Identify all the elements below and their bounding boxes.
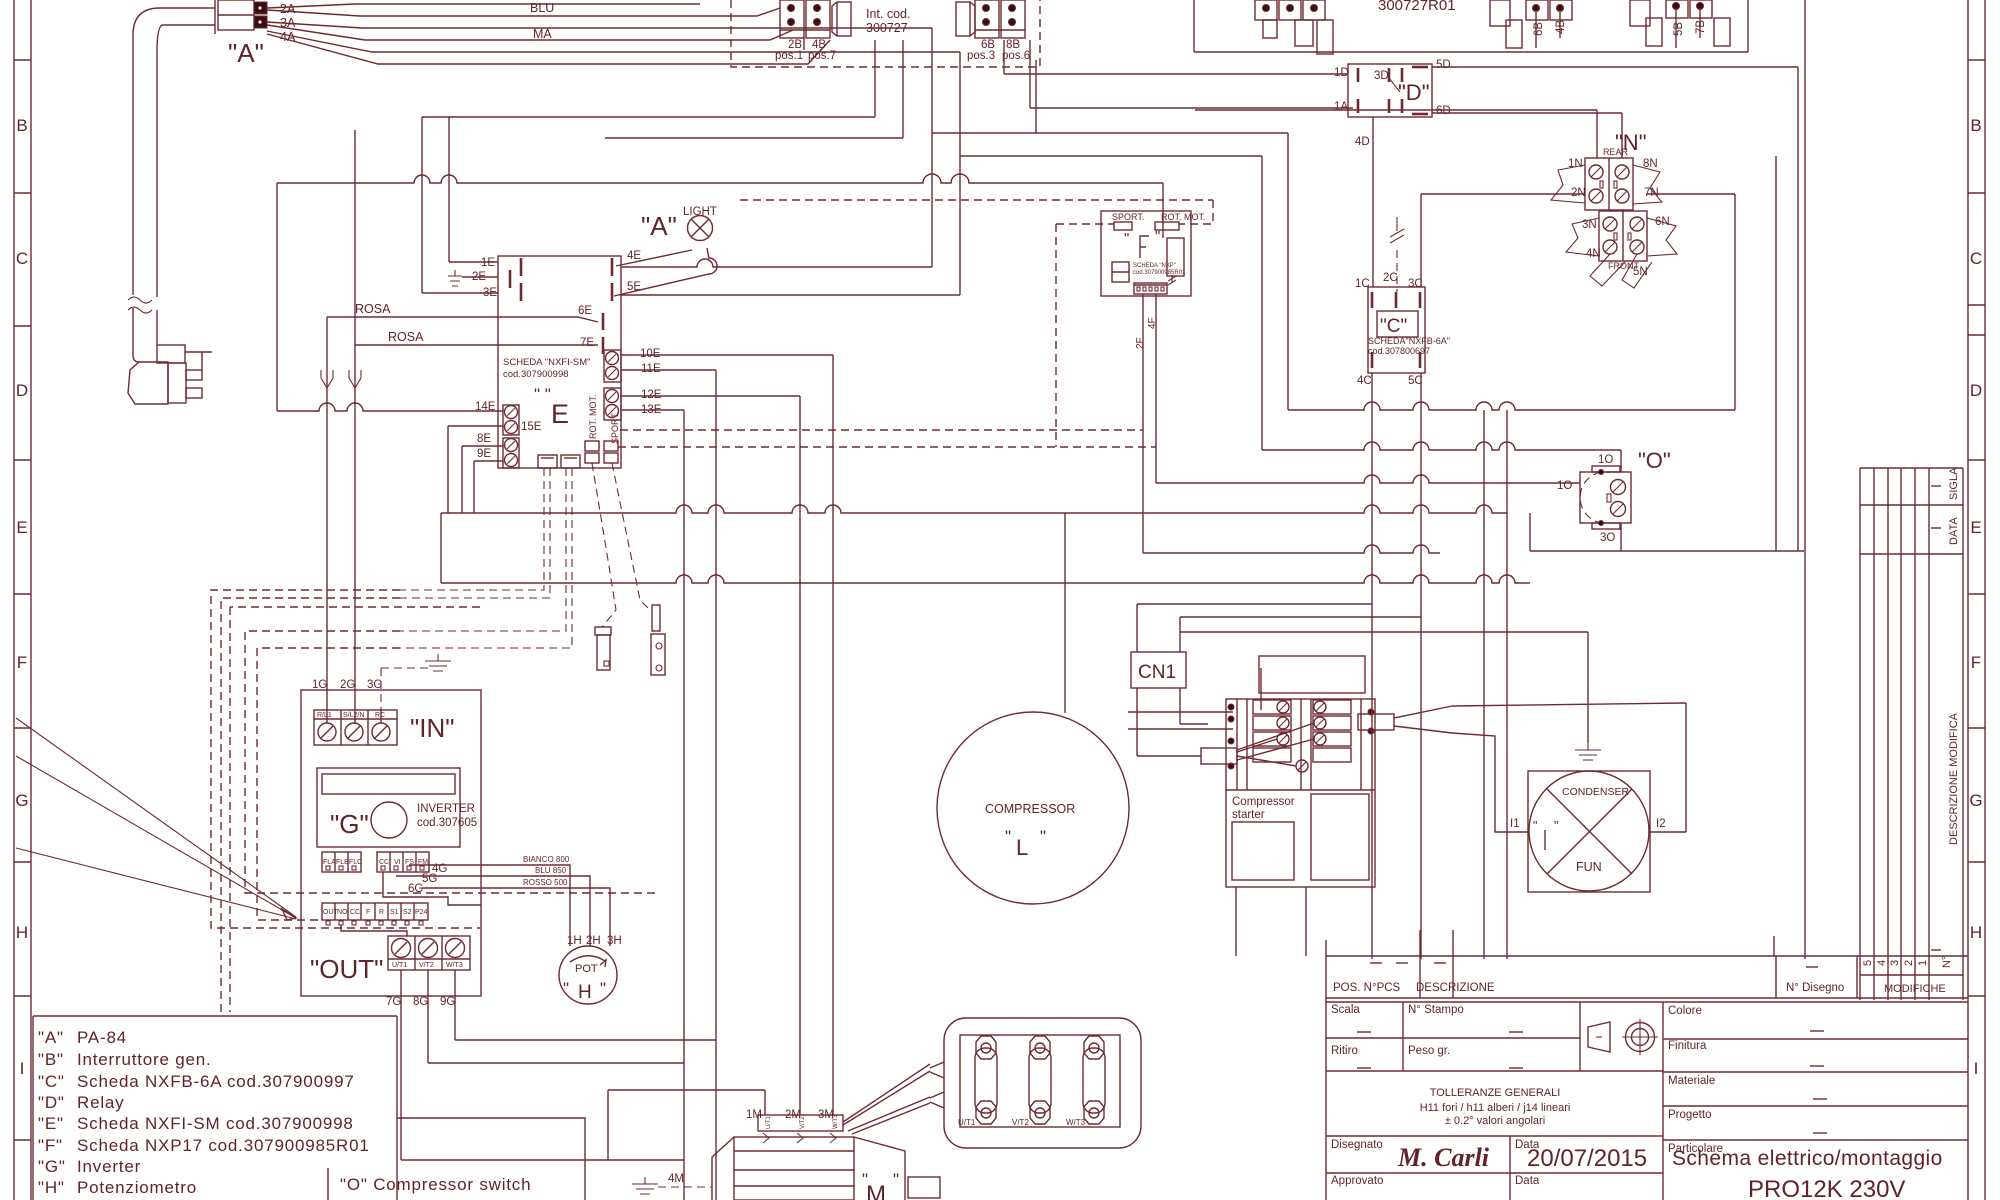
svg-text:ROSSO 500: ROSSO 500 (523, 878, 568, 887)
svg-text:W/T3: W/T3 (446, 962, 463, 969)
svg-text:ROT. MOT.: ROT. MOT. (588, 395, 598, 440)
svg-text:SPORT.: SPORT. (610, 412, 620, 444)
svg-text:CC: CC (350, 909, 360, 916)
svg-text:10E: 10E (640, 348, 661, 360)
svg-text:COMPRESSOR: COMPRESSOR (985, 802, 1075, 816)
svg-text:"C": "C" (1380, 316, 1407, 337)
svg-text:SIGLA: SIGLA (1948, 467, 1960, 500)
svg-text:": " (893, 1170, 899, 1189)
svg-text:Potenziometro: Potenziometro (77, 1178, 197, 1197)
svg-text:4B: 4B (1555, 20, 1567, 34)
svg-text:M: M (866, 1181, 886, 1200)
svg-text:E: E (1970, 518, 1981, 537)
svg-text:7B: 7B (1695, 20, 1707, 34)
svg-text:W/T3: W/T3 (1066, 1118, 1086, 1127)
svg-text:± 0.2° valori angolari: ± 0.2° valori angolari (1445, 1115, 1545, 1127)
svg-text:U/T1: U/T1 (766, 1115, 772, 1129)
svg-text:2C: 2C (1383, 272, 1398, 284)
svg-text:1O: 1O (1557, 480, 1572, 492)
svg-text:" ": " " (534, 385, 551, 404)
svg-text:V/T2: V/T2 (1012, 1118, 1029, 1127)
svg-text:3: 3 (1889, 960, 1901, 966)
svg-text:H: H (1970, 923, 1982, 942)
svg-text:": " (1533, 819, 1537, 833)
svg-text:1E: 1E (481, 257, 495, 269)
svg-text:Inverter: Inverter (77, 1157, 141, 1176)
svg-text:NO: NO (337, 909, 348, 916)
svg-text:N° Disegno: N° Disegno (1786, 982, 1844, 994)
svg-text:B: B (16, 116, 27, 135)
svg-text:Int. cod.: Int. cod. (866, 7, 910, 21)
svg-text:20/07/2015: 20/07/2015 (1527, 1145, 1647, 1172)
svg-text:4M: 4M (668, 1173, 684, 1185)
svg-text:Scheda NXFI-SM cod.307900998: Scheda NXFI-SM cod.307900998 (77, 1114, 354, 1133)
svg-text:M. Carli: M. Carli (1397, 1143, 1490, 1172)
svg-text:REAR: REAR (1603, 147, 1629, 157)
svg-text:pos.6: pos.6 (1002, 50, 1030, 62)
svg-text:SPORT.: SPORT. (1112, 212, 1144, 222)
svg-text:G: G (1969, 791, 1982, 810)
svg-text:3G: 3G (367, 679, 382, 691)
svg-text:3D: 3D (1374, 70, 1389, 82)
svg-text:pos.3: pos.3 (967, 50, 995, 62)
svg-text:Data: Data (1515, 1175, 1540, 1187)
svg-text:I: I (1974, 1059, 1979, 1078)
svg-text:1H: 1H (567, 935, 582, 947)
svg-text:pos.7: pos.7 (808, 50, 836, 62)
svg-text:"G": "G" (330, 809, 369, 839)
svg-text:300727: 300727 (866, 21, 908, 35)
svg-text:300727R01: 300727R01 (1378, 0, 1456, 14)
svg-text:Materiale: Materiale (1668, 1075, 1715, 1087)
svg-text:FLC: FLC (349, 859, 362, 866)
svg-text:5B: 5B (1673, 22, 1685, 36)
svg-text:5G: 5G (422, 873, 437, 885)
svg-text:N°: N° (1941, 956, 1953, 968)
svg-text:PRO12K 230V: PRO12K 230V (1748, 1176, 1905, 1200)
svg-text:BIANCO 800: BIANCO 800 (523, 855, 570, 864)
svg-text:1A: 1A (1334, 101, 1348, 113)
svg-text:P24: P24 (415, 909, 428, 916)
svg-text:Interruttore gen.: Interruttore gen. (77, 1050, 212, 1069)
svg-text:"O": "O" (1638, 448, 1671, 473)
svg-text:4C: 4C (1357, 375, 1372, 387)
svg-text:2A: 2A (280, 2, 296, 16)
svg-text:H11 fori / h11 alberi /: H11 fori / h11 alberi / j14 lineari (1420, 1102, 1571, 1114)
svg-text:pos.1: pos.1 (775, 50, 803, 62)
svg-text:4E: 4E (627, 250, 641, 262)
svg-text:L: L (1016, 835, 1028, 860)
svg-text:2N: 2N (1571, 187, 1586, 199)
svg-text:"D": "D" (38, 1093, 65, 1112)
svg-text:5: 5 (1862, 960, 1874, 966)
svg-text:ROT. MOT.: ROT. MOT. (1161, 212, 1206, 222)
svg-text:POS. N°PCS: POS. N°PCS (1333, 982, 1401, 994)
svg-text:9E: 9E (477, 448, 491, 460)
svg-text:RC: RC (375, 712, 385, 719)
svg-text:Scheda NXFB-6A cod.307900997: Scheda NXFB-6A cod.307900997 (77, 1072, 355, 1091)
svg-text:"F": "F" (38, 1136, 63, 1155)
svg-text:G: G (15, 791, 28, 810)
svg-text:"A": "A" (228, 38, 264, 68)
svg-text:CC: CC (379, 859, 389, 866)
svg-text:H: H (578, 982, 592, 1003)
svg-text:I1: I1 (1510, 818, 1520, 830)
svg-text:VI: VI (394, 859, 401, 866)
svg-text:FRONT: FRONT (1608, 261, 1639, 271)
svg-text:7G: 7G (386, 996, 401, 1008)
svg-text:S/L2/N: S/L2/N (343, 712, 364, 719)
svg-text:1C: 1C (1355, 278, 1370, 290)
svg-text:PA-84: PA-84 (77, 1028, 127, 1047)
svg-text:R: R (379, 909, 384, 916)
svg-text:12E: 12E (641, 389, 662, 401)
svg-text:"B": "B" (38, 1050, 64, 1069)
svg-text:2F: 2F (1135, 337, 1146, 349)
svg-text:1M: 1M (746, 1109, 762, 1121)
svg-text:8E: 8E (477, 433, 491, 445)
svg-text:Finitura: Finitura (1668, 1040, 1707, 1052)
svg-text:BLU: BLU (530, 1, 554, 15)
svg-text:": " (1554, 819, 1558, 833)
svg-text:": " (1005, 827, 1011, 846)
svg-text:H: H (16, 923, 28, 942)
svg-text:Approvato: Approvato (1331, 1175, 1383, 1187)
svg-text:W/T3: W/T3 (833, 1114, 839, 1129)
svg-text:F: F (1971, 653, 1981, 672)
svg-text:Colore: Colore (1668, 1005, 1702, 1017)
svg-text:FLA: FLA (323, 859, 336, 866)
svg-text:MODIFICHE: MODIFICHE (1884, 983, 1946, 995)
svg-text:V/T2: V/T2 (419, 962, 434, 969)
svg-text:3H: 3H (607, 935, 622, 947)
svg-text:2G: 2G (340, 679, 355, 691)
svg-text:2M: 2M (785, 1109, 801, 1121)
svg-text:SCHEDA "NXP": SCHEDA "NXP" (1133, 263, 1176, 269)
svg-text:": " (1040, 827, 1046, 846)
svg-text:ROSA: ROSA (355, 302, 391, 316)
svg-text:": " (1124, 230, 1129, 247)
svg-text:C: C (1970, 249, 1982, 268)
svg-text:F: F (17, 653, 27, 672)
svg-text:3O: 3O (1600, 532, 1615, 544)
svg-text:E: E (551, 399, 569, 429)
svg-text:"D": "D" (1398, 80, 1430, 105)
svg-text:7E: 7E (580, 337, 594, 349)
svg-text:DESCRIZIONE: DESCRIZIONE (1416, 982, 1495, 994)
svg-text:"E": "E" (38, 1114, 64, 1133)
svg-text:cod.307800697: cod.307800697 (1368, 346, 1430, 356)
svg-text:1G: 1G (312, 679, 327, 691)
svg-text:6D: 6D (1436, 105, 1451, 117)
svg-text:ROSA: ROSA (388, 330, 424, 344)
svg-text:Disegnato: Disegnato (1331, 1139, 1383, 1151)
svg-text:4: 4 (1876, 960, 1888, 966)
svg-text:Scala: Scala (1331, 1004, 1360, 1016)
svg-text:B: B (1970, 116, 1981, 135)
svg-text:U/T1: U/T1 (392, 962, 407, 969)
svg-text:S1: S1 (390, 909, 399, 916)
svg-text:Relay: Relay (77, 1093, 124, 1112)
svg-text:Scheda NXP17 cod.307900985R0: Scheda NXP17 cod.307900985R01 (77, 1136, 370, 1155)
svg-text:1O: 1O (1598, 454, 1613, 466)
svg-text:R/L1: R/L1 (317, 712, 332, 719)
svg-text:8G: 8G (413, 996, 428, 1008)
svg-text:4D: 4D (1355, 136, 1370, 148)
svg-text:CN1: CN1 (1138, 662, 1176, 683)
svg-text:I: I (20, 1059, 25, 1078)
svg-text:5D: 5D (1436, 59, 1451, 71)
svg-text:": " (600, 979, 606, 998)
svg-text:N° Stampo: N° Stampo (1408, 1004, 1464, 1016)
svg-text:starter: starter (1232, 809, 1265, 821)
svg-text:11E: 11E (641, 363, 661, 375)
svg-text:"C": "C" (38, 1072, 65, 1091)
svg-text:"IN": "IN" (410, 713, 454, 743)
svg-text:FLB: FLB (336, 859, 349, 866)
svg-text:DATA: DATA (1948, 517, 1960, 545)
svg-text:S2: S2 (403, 909, 412, 916)
svg-text:": " (1155, 228, 1160, 245)
svg-text:cod.307900998: cod.307900998 (503, 369, 569, 380)
svg-text:V/T2: V/T2 (800, 1116, 806, 1129)
svg-text:D: D (16, 381, 28, 400)
svg-text:cod.307605: cod.307605 (417, 817, 477, 829)
svg-text:Progetto: Progetto (1668, 1109, 1711, 1121)
svg-text:U/T1: U/T1 (958, 1118, 976, 1127)
svg-text:Schema elettrico/montaggio: Schema elettrico/montaggio (1672, 1147, 1943, 1170)
svg-text:"A": "A" (641, 211, 677, 241)
svg-text:"A": "A" (38, 1028, 64, 1047)
svg-text:"H": "H" (38, 1178, 65, 1197)
svg-text:Ritiro: Ritiro (1331, 1045, 1358, 1057)
svg-text:CONDENSER: CONDENSER (1562, 786, 1630, 798)
svg-text:FUN: FUN (1576, 860, 1602, 874)
svg-text:INVERTER: INVERTER (417, 803, 475, 815)
svg-text:"OUT": "OUT" (310, 954, 383, 984)
svg-text:BLU 850: BLU 850 (535, 866, 567, 875)
svg-text:"G": "G" (38, 1157, 66, 1176)
svg-text:6B: 6B (1533, 22, 1545, 36)
svg-text:2H: 2H (586, 935, 601, 947)
svg-text:SCHEDA "NXFI-SM": SCHEDA "NXFI-SM" (503, 357, 591, 368)
svg-text:POT: POT (575, 963, 598, 975)
svg-text:TOLLERANZE GENERALI: TOLLERANZE GENERALI (1430, 1087, 1561, 1099)
svg-text:3M: 3M (818, 1109, 834, 1121)
svg-text:Peso gr.: Peso gr. (1408, 1045, 1450, 1057)
svg-text:C: C (16, 249, 28, 268)
svg-text:6E: 6E (578, 305, 592, 317)
svg-text:Compressor: Compressor (1232, 796, 1295, 808)
svg-text:MA: MA (533, 27, 552, 41)
svg-text:F: F (366, 909, 370, 916)
svg-text:I2: I2 (1656, 818, 1666, 830)
svg-text:2: 2 (1903, 960, 1915, 966)
svg-text:cod.307900985R01: cod.307900985R01 (1133, 270, 1186, 276)
svg-text:1D: 1D (1334, 67, 1349, 79)
svg-text:SCHEDA"NXFB-6A": SCHEDA"NXFB-6A" (1368, 336, 1450, 346)
svg-text:D: D (1970, 381, 1982, 400)
svg-text:1: 1 (1917, 960, 1929, 966)
svg-text:15E: 15E (521, 421, 542, 433)
svg-text:": " (563, 979, 569, 998)
svg-text:"O" Compressor switch: "O" Compressor switch (340, 1175, 531, 1194)
svg-text:DESCRIZIONE MODIFICA: DESCRIZIONE MODIFICA (1948, 712, 1960, 845)
svg-text:9G: 9G (440, 996, 455, 1008)
svg-text:E: E (16, 518, 27, 537)
svg-text:4N: 4N (1586, 248, 1601, 260)
